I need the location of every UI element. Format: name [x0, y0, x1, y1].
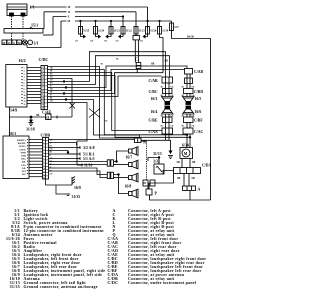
svg-text:7: 7	[43, 159, 44, 161]
svg-text:4: 4	[42, 77, 43, 79]
svg-text:C/DA: C/DA	[202, 164, 212, 168]
svg-text:LEFT-: LEFT-	[19, 149, 26, 151]
svg-text:C/BC: C/BC	[149, 90, 158, 94]
svg-text:GR: GR	[192, 116, 195, 118]
svg-text:11/20: 11/20	[150, 30, 157, 33]
svg-text:SB: SB	[161, 126, 164, 128]
svg-text:Q: Q	[46, 116, 49, 120]
svg-text:A: A	[198, 188, 201, 192]
svg-text:BL: BL	[50, 73, 53, 75]
svg-text:5: 5	[43, 152, 44, 154]
svg-text:3: 3	[42, 74, 43, 76]
svg-text:6: 6	[43, 155, 44, 157]
svg-text:16/1: 16/1	[9, 131, 16, 136]
svg-text:5/1 A:5: 5/1 A:5	[83, 157, 95, 161]
svg-text:16/9: 16/9	[74, 186, 81, 190]
svg-text:11/10: 11/10	[84, 164, 93, 168]
svg-text:16/6: 16/6	[195, 110, 202, 114]
svg-text:11: 11	[42, 101, 44, 103]
svg-text:13: 13	[24, 104, 26, 106]
svg-text:GR: GR	[50, 88, 53, 90]
svg-text:X: X	[68, 16, 70, 19]
svg-text:5: 5	[24, 80, 25, 82]
svg-text:BN: BN	[50, 82, 53, 84]
svg-text:SB: SB	[50, 152, 53, 154]
svg-text:GR: GR	[192, 126, 195, 128]
svg-text:8: 8	[42, 91, 43, 93]
svg-text:RR-: RR-	[22, 162, 26, 164]
svg-text:C/AB: C/AB	[149, 79, 159, 83]
svg-text:15/1: 15/1	[31, 23, 38, 28]
svg-text:14/9: 14/9	[10, 108, 17, 113]
svg-text:10: 10	[24, 95, 26, 97]
svg-text:16/3: 16/3	[151, 97, 158, 101]
svg-text:RIGHT-: RIGHT-	[18, 143, 26, 145]
svg-text:7: 7	[24, 86, 25, 88]
svg-text:31/35: 31/35	[10, 285, 20, 289]
svg-text:31/35: 31/35	[72, 195, 81, 199]
svg-text:RIGHT+: RIGHT+	[17, 140, 27, 142]
svg-text:10: 10	[42, 97, 44, 99]
svg-text:3: 3	[43, 146, 44, 148]
svg-text:1: 1	[42, 67, 43, 69]
svg-text:GN: GN	[50, 79, 53, 81]
svg-text:SB: SB	[165, 60, 168, 63]
svg-text:11/23: 11/23	[114, 30, 121, 33]
svg-text:C/BD: C/BD	[194, 90, 203, 94]
svg-text:53/1: 53/1	[116, 41, 119, 43]
svg-text:GN: GN	[50, 100, 53, 102]
svg-text:12: 12	[43, 175, 45, 177]
svg-text:SB: SB	[116, 59, 119, 61]
svg-text:9: 9	[43, 165, 44, 167]
svg-text:C/DB: C/DB	[41, 133, 51, 138]
svg-text:16/8: 16/8	[125, 185, 132, 189]
svg-text:W: W	[50, 94, 52, 96]
svg-text:C/DC: C/DC	[39, 57, 49, 62]
svg-text:3/1: 3/1	[34, 41, 39, 46]
svg-text:GR: GR	[192, 87, 195, 89]
svg-text:13: 13	[43, 178, 45, 180]
svg-text:11/22: 11/22	[126, 30, 133, 33]
svg-text:8: 8	[24, 89, 25, 91]
svg-text:GR: GR	[50, 67, 53, 69]
svg-text:1: 1	[43, 139, 44, 141]
svg-text:11/24: 11/24	[98, 30, 105, 33]
svg-text:4: 4	[24, 77, 25, 79]
svg-text:12: 12	[42, 104, 44, 106]
svg-text:31/18: 31/18	[26, 128, 35, 132]
svg-text:C/BF: C/BF	[194, 119, 203, 123]
svg-text:ANT: ANT	[21, 170, 26, 173]
svg-text:LR+: LR+	[22, 165, 27, 167]
svg-text:W: W	[50, 142, 52, 144]
svg-text:SB: SB	[50, 70, 53, 72]
svg-text:1: 1	[24, 68, 25, 70]
svg-text:7: 7	[42, 87, 43, 89]
svg-text:C/DC: C/DC	[108, 281, 119, 285]
svg-text:15/5: 15/5	[75, 41, 78, 43]
svg-text:X: X	[13, 42, 15, 45]
svg-text:6/34: 6/34	[182, 144, 189, 148]
svg-text:Ground connector, antenna anch: Ground connector, antenna anchorage	[24, 285, 98, 289]
svg-text:6: 6	[42, 84, 43, 86]
svg-text:SB: SB	[182, 126, 185, 128]
svg-text:15/6: 15/6	[90, 41, 93, 43]
svg-text:R: R	[50, 85, 52, 87]
svg-text:C/AA: C/AA	[149, 130, 159, 134]
svg-text:SB: SB	[36, 114, 39, 117]
svg-text:GN: GN	[50, 173, 53, 175]
svg-text:A: A	[143, 140, 146, 145]
svg-text:C/AE: C/AE	[42, 111, 52, 115]
svg-text:RR+: RR+	[21, 159, 26, 161]
svg-text:16/7: 16/7	[126, 156, 133, 160]
svg-text:31/13: 31/13	[153, 152, 162, 156]
svg-text:C/AD: C/AD	[194, 70, 204, 74]
svg-text:1/1: 1/1	[30, 5, 35, 10]
svg-text:9: 9	[42, 94, 43, 96]
svg-text:C/BE: C/BE	[149, 119, 158, 123]
svg-text:W: W	[50, 167, 52, 169]
svg-text:C/AC: C/AC	[194, 130, 204, 134]
svg-text:D4:30: D4:30	[187, 36, 195, 39]
svg-text:C: C	[135, 57, 138, 62]
svg-text:13: 13	[42, 108, 44, 110]
svg-text:2: 2	[43, 143, 44, 145]
svg-text:31/2: 31/2	[104, 41, 107, 43]
svg-text:GR: GR	[171, 87, 174, 89]
svg-text:5: 5	[42, 80, 43, 82]
svg-text:P: P	[155, 192, 158, 196]
svg-text:11: 11	[43, 171, 45, 173]
svg-text:LEFT+: LEFT+	[19, 146, 27, 148]
svg-text:2: 2	[24, 71, 25, 73]
svg-text:16/4: 16/4	[151, 110, 158, 114]
svg-text:31/5: 31/5	[140, 41, 143, 43]
svg-text:M: M	[184, 152, 188, 156]
svg-text:SB: SB	[177, 177, 180, 180]
svg-text:11/21: 11/21	[139, 30, 146, 33]
svg-text:5/1 B:1: 5/1 B:1	[83, 153, 95, 157]
svg-text:SB: SB	[50, 91, 53, 93]
svg-text:SB: SB	[177, 161, 180, 164]
svg-text:12: 12	[24, 101, 26, 103]
svg-text:BL: BL	[50, 97, 53, 99]
svg-text:GR: GR	[171, 116, 174, 118]
svg-text:GR: GR	[105, 121, 108, 123]
svg-text:11: 11	[24, 98, 26, 100]
svg-text:GR: GR	[171, 95, 174, 97]
svg-text:R: R	[50, 155, 52, 157]
svg-text:SB: SB	[151, 63, 154, 66]
svg-text:16/5: 16/5	[195, 97, 202, 101]
svg-text:9: 9	[24, 92, 25, 94]
svg-text:ILL: ILL	[22, 174, 26, 176]
svg-text:8: 8	[43, 162, 44, 164]
svg-text:2: 2	[42, 70, 43, 72]
svg-text:PWR: PWR	[21, 152, 27, 154]
svg-text:LR-: LR-	[22, 168, 26, 170]
svg-text:10: 10	[43, 168, 45, 170]
svg-text:11/25: 11/25	[83, 30, 90, 33]
svg-text:3/2 A:8: 3/2 A:8	[83, 146, 95, 150]
svg-text:SB: SB	[192, 177, 195, 180]
svg-text:GND: GND	[21, 156, 26, 158]
svg-text:16/2: 16/2	[19, 58, 26, 63]
svg-text:11/7: 11/7	[174, 26, 179, 29]
svg-text:4: 4	[43, 149, 44, 151]
svg-text:SB: SB	[192, 161, 195, 164]
svg-text:3/32: 3/32	[153, 160, 160, 164]
svg-text:6: 6	[24, 83, 25, 85]
svg-text:VO: VO	[50, 76, 53, 78]
svg-text:Connector, under instrument pa: Connector, under instrument panel	[128, 281, 197, 285]
svg-text:SB: SB	[101, 64, 104, 66]
svg-text:11/19: 11/19	[162, 30, 169, 33]
svg-text:3: 3	[24, 74, 25, 76]
svg-text:GR: GR	[171, 126, 174, 128]
